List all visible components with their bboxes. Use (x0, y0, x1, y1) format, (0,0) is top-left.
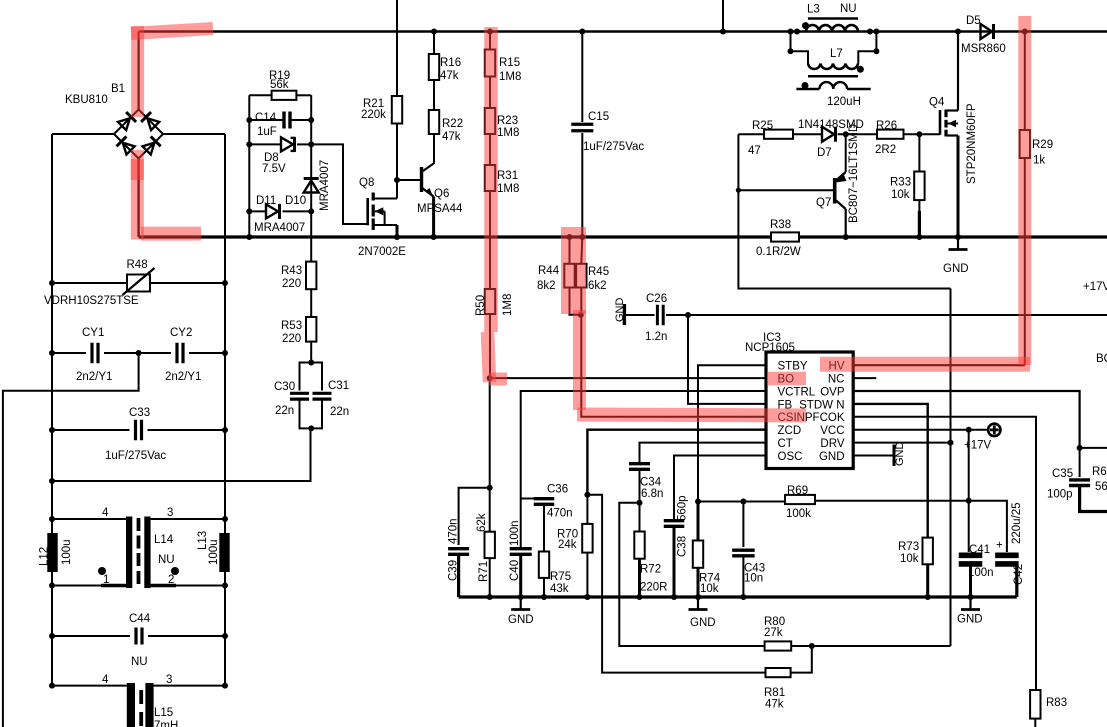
node Q4 drain bus (955, 29, 961, 35)
node R75 bus (541, 594, 547, 600)
svg-text:R15: R15 (499, 57, 520, 69)
highlight R15 chain jog (488, 332, 490, 382)
node C41 bus (968, 594, 974, 600)
inductor L3 top winding (791, 31, 797, 33)
transistor Q6 MPSA44 (420, 167, 423, 192)
svg-text:220: 220 (282, 333, 301, 345)
svg-text:C40: C40 (509, 560, 521, 581)
svg-text:Q4: Q4 (929, 97, 945, 109)
svg-text:C41: C41 (969, 544, 990, 556)
wire C42 bottom to bus corner (1007, 563, 1017, 572)
svg-text:24k: 24k (558, 539, 577, 551)
node R74 bus (695, 594, 701, 600)
svg-text:GND: GND (894, 442, 906, 467)
svg-text:PFCOK: PFCOK (805, 412, 845, 424)
node R33 bus (916, 234, 922, 240)
resistor R83 (1034, 689, 1037, 691)
resistor R50 (485, 289, 495, 314)
node R44/R45 junction (578, 312, 584, 318)
svg-text:C35: C35 (1052, 468, 1073, 480)
svg-text:L7: L7 (830, 48, 843, 60)
wire R31-R50 crossing bus (489, 191, 491, 289)
svg-text:43k: 43k (550, 583, 569, 595)
svg-text:2N7002E: 2N7002E (358, 246, 406, 258)
svg-text:ZCD: ZCD (778, 425, 802, 437)
wire C26 net to right edge (688, 314, 1107, 316)
highlight BO text (767, 372, 806, 386)
svg-text:CT: CT (778, 438, 793, 450)
resistor R43 (306, 262, 316, 290)
resistor R23 (485, 108, 495, 134)
svg-text:R23: R23 (497, 115, 518, 127)
diode D8 zener (249, 143, 281, 145)
wire to C42 top (969, 501, 1007, 552)
svg-text:NU: NU (158, 554, 175, 566)
transistor Q8 2N7002E (366, 198, 369, 225)
svg-text:1M8: 1M8 (499, 71, 521, 83)
capacitor C14 (249, 119, 284, 121)
svg-text:56: 56 (1095, 481, 1107, 493)
node R71 bus (487, 594, 493, 600)
node C26 / FB junction (685, 312, 691, 318)
wire STDWN pin to R73 (853, 404, 928, 538)
wire R29 to HV (1024, 158, 1026, 365)
core bar bottom (808, 75, 858, 78)
svg-text:D7: D7 (817, 147, 832, 159)
wire CY midpoint to left edge (3, 353, 139, 727)
node R80/R81 junction (809, 643, 815, 649)
transistor Q7 BC807 (845, 134, 847, 172)
resistor R71 (489, 488, 491, 532)
node CY midpoint (49, 350, 55, 356)
wire pin2 row (151, 585, 225, 587)
inductor 120uH winding (796, 88, 819, 90)
node R70 bus (584, 594, 590, 600)
capacitor C30 (300, 363, 312, 391)
svg-text:+17V: +17V (964, 440, 992, 452)
node top bus junctions (431, 29, 437, 35)
wire PFCOK pin (853, 417, 1036, 690)
capacitor C38 (664, 519, 685, 522)
node R29 top bus (1022, 29, 1028, 35)
wire bridge left to rail (52, 133, 114, 135)
svg-text:470n: 470n (547, 508, 573, 520)
diode D7 1N4148SMD (793, 133, 822, 135)
node Q8 drain / R21 / Q6 base (394, 177, 400, 183)
svg-text:100n: 100n (968, 567, 994, 579)
highlight R44/R45 wide band (561, 227, 586, 314)
node C30/C31 bottom (308, 425, 314, 431)
svg-text:6k2: 6k2 (588, 280, 607, 292)
ground GND at IC pin (893, 445, 896, 467)
highlight R44 chain lower (573, 310, 586, 410)
svg-text:560p: 560p (677, 495, 689, 521)
svg-text:100u: 100u (208, 539, 220, 565)
svg-text:1uF/275Vac: 1uF/275Vac (105, 450, 166, 462)
svg-text:22n: 22n (275, 405, 294, 417)
wire right rail x225 (224, 134, 226, 686)
svg-text:GND: GND (819, 451, 845, 463)
wire x723 vertical off-page (722, 0, 724, 32)
svg-text:R31: R31 (497, 170, 518, 182)
node 120uH phase dot (802, 82, 809, 89)
wire L7 left link (791, 32, 809, 64)
wire rail to L15 pin4 (52, 685, 127, 687)
wire D8 to Q8 gate (311, 144, 366, 224)
node R69 left junction (695, 499, 701, 505)
highlight bridge top vertical (131, 26, 144, 117)
wire bridge right to rail (163, 133, 225, 135)
node C43 bus (740, 594, 746, 600)
svg-text:100u: 100u (61, 539, 73, 565)
node DRV junction (948, 440, 954, 446)
node R73 bus (925, 594, 931, 600)
svg-text:2n2/Y1: 2n2/Y1 (76, 371, 112, 383)
wire R21 top vertical off-page (396, 0, 398, 96)
wire bridge top vertical (138, 32, 140, 111)
diode D10 (304, 181, 319, 193)
svg-text:56k: 56k (270, 79, 289, 91)
wire R44/R45 node to CSIN (581, 315, 766, 417)
capacitor C41 (959, 552, 983, 558)
wire bottom bus right part (799, 235, 1107, 238)
svg-text:OSC: OSC (778, 451, 803, 463)
wire DRV net vertical (738, 134, 950, 288)
wire rail to L15 pin3 (154, 685, 226, 687)
svg-text:L3: L3 (807, 4, 820, 16)
svg-text:1M8: 1M8 (497, 127, 519, 139)
wire R45 bottom (580, 288, 582, 315)
svg-text:2n2/Y1: 2n2/Y1 (165, 371, 201, 383)
transformer L14 core (126, 517, 132, 589)
resistor R29 (1024, 32, 1026, 131)
node phase dot pin1 (98, 567, 106, 575)
svg-text:MRA4007: MRA4007 (319, 160, 331, 211)
wire VCTRL pin (521, 391, 766, 547)
svg-text:NU: NU (840, 3, 857, 15)
wire R33 bottom (918, 200, 920, 212)
node D7 cathode junction (838, 133, 878, 135)
transistor Q4 STP20NM60FP (939, 110, 942, 135)
node C38 bus (671, 594, 677, 600)
wire R70 node to R81 (587, 495, 765, 673)
svg-text:220k: 220k (361, 109, 386, 121)
svg-text:C14: C14 (255, 112, 277, 124)
capacitor CY2 (139, 352, 171, 354)
wire row y481 to C30/C31 bottom (52, 428, 311, 481)
wire bottom GND bus (459, 595, 1017, 598)
resistor R26 (877, 130, 904, 139)
svg-text:1uF: 1uF (257, 126, 277, 138)
IC3 NCP1605 box (766, 352, 853, 469)
wire DRV pin (853, 442, 950, 444)
resistor R69 (698, 501, 785, 503)
svg-text:+: + (996, 540, 1003, 552)
svg-text:C30: C30 (274, 381, 295, 393)
node cluster bottom bus (246, 234, 252, 240)
highlight bottom bus segment (141, 227, 201, 241)
node C30/C31 top (308, 360, 314, 366)
resistor R21 (392, 96, 402, 124)
wire R73 body to bus (926, 564, 929, 597)
svg-text:100k: 100k (786, 508, 811, 520)
node OVP junction (1077, 445, 1083, 451)
svg-text:MRA4007: MRA4007 (254, 222, 305, 234)
wire C35 bottom thick L (1080, 486, 1107, 512)
wire HV pin (853, 364, 1025, 366)
resistor R48 varistor (52, 282, 127, 284)
capacitor C42 electrolytic (995, 552, 1019, 558)
svg-text:L14: L14 (154, 534, 174, 546)
svg-text:R45: R45 (588, 266, 609, 278)
wire VCC vertical to C41 (968, 430, 970, 552)
node L3 bus dots (788, 29, 794, 35)
svg-text:R73: R73 (898, 541, 919, 553)
svg-text:R81: R81 (764, 687, 785, 699)
svg-text:R22: R22 (442, 118, 463, 130)
inductor L12 (52, 518, 126, 520)
svg-text:47k: 47k (765, 699, 784, 711)
core bar top (808, 17, 858, 20)
svg-text:+17V: +17V (1083, 281, 1107, 293)
svg-text:10k: 10k (700, 583, 719, 595)
svg-text:NCP1605: NCP1605 (745, 342, 795, 354)
resistor R38 in bus (771, 232, 799, 241)
bridge B1 (114, 110, 139, 135)
svg-text:C36: C36 (547, 484, 568, 496)
node C39 junction (487, 485, 493, 491)
wire CT pin (640, 443, 767, 462)
wire pin1 row (52, 585, 126, 587)
svg-text:R6: R6 (1092, 466, 1107, 478)
svg-text:3: 3 (166, 674, 172, 686)
svg-text:B1: B1 (111, 83, 125, 95)
svg-text:R38: R38 (770, 219, 791, 231)
wire R15-R23 (489, 77, 491, 109)
diode D5 MSR860 (981, 24, 993, 39)
wire R80 right (791, 645, 812, 647)
capacitor C26 (624, 314, 654, 316)
resistor R44 (569, 237, 571, 264)
svg-text:NU: NU (131, 656, 148, 668)
wire R53 to C30/C31 top (310, 342, 312, 363)
capacitor C39 (459, 488, 490, 545)
svg-text:100n: 100n (509, 520, 521, 546)
resistor R80 (765, 641, 792, 650)
svg-text:62k: 62k (476, 513, 488, 532)
svg-text:GND: GND (943, 263, 969, 275)
svg-text:R25: R25 (752, 120, 773, 132)
node Q7 collector bus (843, 234, 849, 240)
wire L14 pin3 top (151, 518, 225, 520)
svg-text:4: 4 (102, 507, 109, 519)
node R44 bus (567, 234, 573, 240)
resistor R25 (738, 133, 764, 135)
resistor R53 (306, 317, 316, 342)
svg-text:R16: R16 (440, 57, 461, 69)
svg-text:0.1R/2W: 0.1R/2W (756, 246, 801, 258)
svg-text:R69: R69 (787, 485, 808, 497)
wire R80 left leg (619, 503, 764, 646)
node R45 C15 bus (579, 234, 585, 240)
svg-text:GND: GND (957, 614, 983, 626)
diode D11 (249, 210, 266, 212)
svg-text:GND: GND (614, 298, 626, 323)
svg-text:R75: R75 (550, 571, 571, 583)
ground GND at C41 (969, 597, 971, 610)
svg-text:OVP: OVP (820, 386, 845, 398)
transformer L15 core (127, 683, 135, 727)
capacitor C33 (52, 429, 130, 431)
node Q7 base junction (736, 188, 741, 193)
capacitor C44 (52, 635, 130, 637)
resistor R22 (429, 110, 439, 134)
node Q8 source bus (394, 234, 400, 240)
svg-text:C26: C26 (646, 293, 667, 305)
capacitor C40 (510, 547, 532, 550)
svg-text:220: 220 (282, 278, 301, 290)
resistor R72 (639, 503, 641, 532)
wire bridge bottom vertical (137, 159, 139, 238)
svg-text:C38: C38 (677, 536, 689, 557)
node C34 R72 R80 junction (637, 500, 643, 506)
capacitor C34 (639, 443, 641, 460)
wire FB vertical (688, 315, 766, 404)
svg-text:100p: 100p (1047, 489, 1073, 501)
node Q4 source bus (955, 234, 961, 240)
capacitor C31 (311, 363, 322, 391)
svg-text:L15: L15 (154, 707, 173, 719)
highlight BO stub (489, 373, 507, 386)
node phase dot pin2 (171, 567, 179, 575)
wire NC stub (853, 377, 876, 379)
node R70 junction (584, 492, 590, 498)
wire R23-R31 (489, 134, 491, 165)
highlight bridge bottom overlay (131, 159, 144, 180)
resistor R33 (918, 134, 920, 171)
svg-text:NC: NC (828, 374, 845, 386)
svg-text:22n: 22n (330, 406, 349, 418)
wire R50 to BO node (489, 314, 491, 378)
capacitor C43 (742, 502, 744, 548)
wire R22 to Q6 collector (433, 134, 435, 164)
node R33 junction (916, 131, 922, 137)
svg-text:R53: R53 (281, 320, 302, 332)
svg-text:C39: C39 (448, 560, 460, 581)
svg-text:Q6: Q6 (434, 188, 449, 200)
wire GND pin (853, 455, 894, 457)
svg-text:C31: C31 (328, 380, 349, 392)
svg-text:C42: C42 (1013, 564, 1025, 585)
svg-text:Q8: Q8 (359, 177, 374, 189)
cluster left rail x249 (248, 95, 250, 237)
capacitor C35 (1079, 448, 1081, 477)
svg-text:47k: 47k (442, 131, 461, 143)
svg-text:D10: D10 (285, 195, 306, 207)
svg-text:VCTRL: VCTRL (778, 386, 816, 398)
wire OVP pin (853, 391, 1079, 448)
wire R43-R53 (310, 289, 312, 317)
svg-text:220R: 220R (640, 582, 668, 594)
svg-text:7mH: 7mH (154, 720, 178, 727)
svg-text:STBY: STBY (778, 361, 808, 373)
node L3 phase dot (802, 22, 809, 29)
svg-text:C44: C44 (129, 613, 151, 625)
svg-text:D5: D5 (966, 15, 981, 27)
svg-text:R72: R72 (640, 564, 661, 576)
resistor R70 (586, 495, 588, 524)
svg-text:BC807−16LT1SMD: BC807−16LT1SMD (848, 124, 860, 223)
svg-text:10k: 10k (891, 189, 910, 201)
svg-text:GND: GND (690, 617, 716, 629)
highlight R29 vertical (1018, 16, 1031, 365)
ground GND at Q4 source (957, 237, 959, 250)
svg-text:2R2: 2R2 (875, 144, 896, 156)
node R72 bus (637, 594, 643, 600)
resistor R15 (489, 32, 491, 50)
svg-text:CY1: CY1 (82, 327, 104, 339)
svg-text:1M8: 1M8 (502, 294, 514, 316)
svg-text:8k2: 8k2 (537, 280, 556, 292)
capacitor C36 (521, 498, 534, 500)
svg-text:10k: 10k (900, 553, 919, 565)
wire left rail x52 (51, 134, 53, 686)
svg-text:GND: GND (508, 614, 534, 626)
wire R44 bottom jog (570, 288, 581, 315)
highlight HV line (820, 357, 1030, 372)
power +17V terminal (988, 424, 1000, 436)
capacitor C15 (581, 32, 583, 123)
svg-text:Q7: Q7 (816, 197, 831, 209)
svg-text:BO: BO (1096, 353, 1107, 365)
wire ZCD pin (587, 430, 766, 495)
svg-text:R71: R71 (478, 561, 490, 582)
inductor L13 (219, 533, 229, 572)
svg-text:47k: 47k (440, 70, 459, 82)
svg-text:47: 47 (748, 145, 761, 157)
svg-text:120uH: 120uH (827, 96, 861, 108)
resistor R45 (581, 237, 582, 264)
svg-text:1.2n: 1.2n (645, 331, 667, 343)
svg-text:1uF/275Vac: 1uF/275Vac (583, 141, 644, 153)
wire top bus (139, 30, 1107, 32)
node VCC R69 C42 junction (966, 498, 972, 504)
highlight top-left horizontal (131, 29, 213, 34)
wire OSC pin (674, 456, 766, 520)
wire junction to DRV net (812, 645, 951, 647)
svg-text:C33: C33 (129, 407, 150, 419)
svg-text:27k: 27k (764, 627, 783, 639)
svg-text:3: 3 (167, 507, 173, 519)
wire STBY pin (698, 365, 766, 501)
wire bottom bus left part (139, 235, 771, 238)
capacitor CY1 (52, 352, 86, 354)
svg-text:220u/25: 220u/25 (1011, 502, 1023, 544)
ground GND at C26 (623, 304, 626, 325)
resistor R74 (697, 502, 700, 541)
svg-text:10n: 10n (744, 573, 763, 585)
node BO junction (487, 375, 493, 381)
svg-text:R43: R43 (281, 265, 302, 277)
highlight R15 chain (484, 27, 498, 332)
svg-text:CY2: CY2 (170, 327, 192, 339)
svg-text:VCC: VCC (820, 425, 844, 437)
svg-text:D11: D11 (256, 195, 276, 207)
svg-text:R26: R26 (876, 120, 897, 132)
highlight CSIN line (577, 415, 806, 416)
ground GND at R74 (697, 597, 699, 610)
resistor R19 (249, 94, 271, 96)
